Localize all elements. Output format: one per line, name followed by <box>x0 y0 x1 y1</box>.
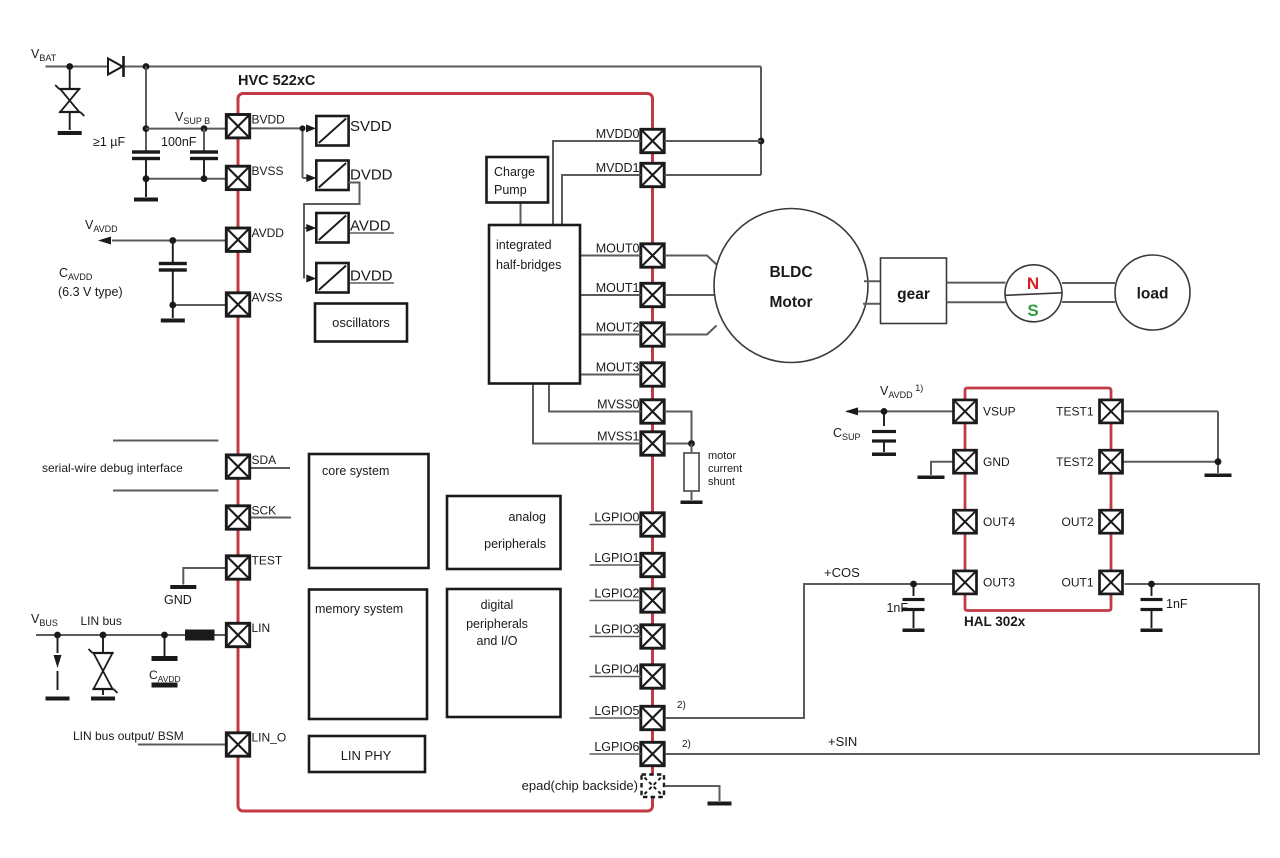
svg-text:VSUP: VSUP <box>983 405 1016 419</box>
pin HAL OUT3 <box>954 571 977 594</box>
wire cap to ground <box>172 305 174 318</box>
node rail/cap junction <box>143 63 150 70</box>
wire debug bracket bottom <box>113 490 218 492</box>
svg-text:SDA: SDA <box>252 453 277 467</box>
label Charge Pump <box>494 165 535 197</box>
node MVSS junction <box>688 440 695 447</box>
wire +COS <box>666 584 954 718</box>
label C_AVDD at LIN cap <box>149 668 181 684</box>
ground below V_BAT TVS <box>58 131 82 135</box>
label LGPIO3 <box>590 623 642 637</box>
capacitor 100nF <box>190 129 218 179</box>
pin LGPIO5 <box>641 706 664 729</box>
label SCK <box>252 504 277 518</box>
ground below 1nF COS <box>903 629 925 633</box>
svg-text:LGPIO6: LGPIO6 <box>594 740 639 754</box>
label C_AVDD <box>59 266 93 282</box>
capacitor C_AVDD <box>159 241 187 306</box>
pin BVSS <box>226 166 249 189</box>
label LIN_O <box>252 731 287 745</box>
core system box <box>309 454 429 568</box>
label DVDD1 <box>350 167 393 184</box>
label HAL VSUP <box>983 405 1016 419</box>
arrow into AVDD reg <box>306 224 316 232</box>
label MOUT2 <box>594 321 642 335</box>
wire MVSS1 to half-bridges <box>533 384 641 444</box>
svg-text:≥1 µF: ≥1 µF <box>93 135 125 149</box>
load circle <box>1115 255 1190 330</box>
svg-text:MOUT3: MOUT3 <box>596 361 640 375</box>
svg-text:shunt: shunt <box>708 476 735 488</box>
arrow into DVDD2 <box>306 275 316 283</box>
TVS zener at V_BAT <box>55 67 84 131</box>
wire BVDD to regulators <box>250 127 306 129</box>
gear box <box>881 258 947 324</box>
pin BVDD <box>226 115 249 138</box>
svg-text:DVDD: DVDD <box>350 268 393 285</box>
svg-text:LIN_O: LIN_O <box>252 731 287 745</box>
label HVC 522xC <box>238 73 316 89</box>
label S <box>1027 301 1038 320</box>
wire MOUT3 from half-bridges <box>580 374 641 376</box>
svg-text:gear: gear <box>897 286 930 303</box>
label V_AVDD <box>85 218 118 234</box>
TVS zener at LIN <box>89 635 118 695</box>
label HAL OUT1 <box>1061 576 1093 590</box>
pin LIN <box>226 623 249 646</box>
svg-text:AVDD: AVDD <box>252 226 285 240</box>
regulator SVDD <box>316 116 348 146</box>
BLDC motor circle <box>714 209 868 363</box>
svg-text:MVSS1: MVSS1 <box>597 430 639 444</box>
digital peripherals box <box>447 589 561 717</box>
ground below 1nF SIN <box>1141 629 1163 633</box>
node 1nF SIN junction <box>1148 581 1155 588</box>
svg-text:OUT4: OUT4 <box>983 515 1015 529</box>
wire MVDD0 right <box>665 140 762 142</box>
pin MVSS1 <box>641 432 664 455</box>
svg-text:analog: analog <box>508 510 546 524</box>
label AVDD reg <box>350 218 394 235</box>
capacitor 1nF (SIN) <box>1141 584 1163 628</box>
analog peripherals box <box>447 496 561 569</box>
HAL 302x chip outline (red) <box>965 388 1111 611</box>
wire MOUT1 to motor <box>665 294 715 296</box>
label SVDD <box>350 118 392 135</box>
ferrite bead <box>185 630 215 641</box>
label LIN bus <box>81 614 122 628</box>
wire epad to ground <box>665 786 720 801</box>
label MVDD1 <box>594 161 642 175</box>
node AVDD/cap junction <box>169 237 176 244</box>
svg-text:SVDD: SVDD <box>350 118 392 135</box>
svg-text:AVSS: AVSS <box>252 291 283 305</box>
pin MOUT0 <box>641 244 664 267</box>
svg-text:2): 2) <box>682 739 691 750</box>
label MOUT3 <box>594 361 642 375</box>
node 100nF bottom junction <box>201 175 208 182</box>
wire MOUT0 from half-bridges <box>580 255 641 257</box>
svg-text:motor: motor <box>708 450 736 462</box>
svg-text:HAL 302x: HAL 302x <box>964 614 1026 629</box>
wire MOUT2 to motor <box>665 326 717 335</box>
wire debug bracket top <box>113 440 218 442</box>
label V_SUP_B <box>175 110 210 126</box>
svg-text:Pump: Pump <box>494 183 527 197</box>
svg-text:BVDD: BVDD <box>252 112 286 126</box>
pin HAL TEST1 <box>1100 400 1123 423</box>
svg-text:MOUT1: MOUT1 <box>596 281 640 295</box>
svg-text:+COS: +COS <box>824 565 860 580</box>
node 100nF top junction <box>201 125 208 132</box>
ground at epad <box>708 802 732 806</box>
pin AVDD <box>226 228 249 251</box>
svg-text:core system: core system <box>322 464 389 478</box>
wire MOUT1 from half-bridges <box>580 294 641 296</box>
wire into AVDD reg <box>304 227 308 229</box>
label motor current shunt <box>708 450 742 488</box>
wire magnet-load shaft <box>1062 283 1115 302</box>
regulator AVDD <box>316 213 348 243</box>
diode D1 <box>108 56 124 77</box>
label MVDD0 <box>594 127 642 141</box>
node cap bottom junction <box>143 175 150 182</box>
pin LGPIO6 <box>641 742 664 765</box>
label 1nF (COS) <box>886 601 908 615</box>
node 1nF COS junction <box>910 581 917 588</box>
wire MOUT0 to motor <box>665 256 717 265</box>
label memory system <box>315 602 403 616</box>
wire gear-magnet shaft <box>947 283 1006 303</box>
label digital peripherals and I/O <box>466 598 528 648</box>
svg-text:LGPIO2: LGPIO2 <box>594 587 639 601</box>
label LGPIO6 <box>590 740 642 754</box>
label MOUT1 <box>594 281 642 295</box>
wire AVSS left <box>173 304 227 306</box>
label AVDD <box>252 226 285 240</box>
svg-text:(6.3 V type): (6.3 V type) <box>58 285 123 299</box>
wire TEST to ground <box>183 568 226 585</box>
svg-text:TEST: TEST <box>252 554 283 568</box>
label HAL OUT4 <box>983 515 1015 529</box>
regulator DVDD1 <box>316 161 348 191</box>
wire charge pump to half-bridges <box>520 203 522 226</box>
pin MOUT2 <box>641 323 664 346</box>
current arrow at V_BUS <box>54 635 62 690</box>
svg-text:serial-wire debug interface: serial-wire debug interface <box>42 461 183 475</box>
label MVSS1 <box>594 430 642 444</box>
svg-text:SCK: SCK <box>252 504 277 518</box>
label LGPIO1 <box>590 551 642 565</box>
svg-text:LGPIO0: LGPIO0 <box>594 511 639 525</box>
label C_SUP <box>833 426 861 442</box>
svg-text:HVC 522xC: HVC 522xC <box>238 73 316 89</box>
label HAL TEST1 <box>1056 405 1094 419</box>
label core system <box>322 464 389 478</box>
label 6.3 V type <box>58 285 123 299</box>
wire LIN_O stub underline <box>138 744 227 746</box>
ground below TEST wires <box>1205 474 1232 478</box>
pin LGPIO1 <box>641 553 664 576</box>
label DVDD2 reg <box>350 268 394 285</box>
wire to ground <box>145 179 147 197</box>
label V_BAT <box>31 47 57 63</box>
ground at HAL GND <box>918 476 945 480</box>
wire TEST2 right <box>1123 461 1218 463</box>
wire regulator feed vertical <box>302 128 304 178</box>
wire AVDD left <box>112 240 227 242</box>
svg-text:Motor: Motor <box>769 294 812 311</box>
svg-text:2): 2) <box>677 700 686 711</box>
label LGPIO5 <box>590 704 642 718</box>
svg-text:peripherals: peripherals <box>466 617 528 631</box>
arrow V_AVDD (HAL) <box>845 407 858 415</box>
magnet N/S circle <box>1005 265 1062 322</box>
label LIN bus output/ BSM <box>73 729 184 743</box>
pin LGPIO0 <box>641 513 664 536</box>
svg-text:epad(chip backside): epad(chip backside) <box>522 778 638 793</box>
label LGPIO4 <box>590 663 642 677</box>
pin SCK <box>226 506 249 529</box>
wire into DVDD1 <box>303 177 308 179</box>
label integrated half-bridges <box>496 238 561 272</box>
svg-text:LGPIO4: LGPIO4 <box>594 663 639 677</box>
svg-text:oscillators: oscillators <box>332 315 390 330</box>
pin epad <box>642 775 665 798</box>
capacitor at LIN <box>152 635 178 688</box>
label gear <box>897 286 930 303</box>
wire TEST1 right <box>1123 410 1218 412</box>
wire MVDD1 right <box>665 174 762 176</box>
label &#8805;1 &#181;F <box>93 135 125 149</box>
label +SIN <box>828 734 857 749</box>
pin MOUT3 <box>641 363 664 386</box>
ground below LIN TVS <box>91 697 115 701</box>
resistor motor current shunt <box>684 444 699 501</box>
svg-text:LIN: LIN <box>252 621 271 635</box>
wire SCK stub <box>251 517 292 519</box>
pin LGPIO3 <box>641 625 664 648</box>
svg-text:GND: GND <box>164 593 192 607</box>
label BLDC Motor <box>769 264 812 311</box>
HVC 522xC chip outline (red) <box>238 94 653 812</box>
arrow into DVDD1 <box>306 174 316 182</box>
wire +SIN <box>666 584 1259 754</box>
wire LIN bus rail <box>36 634 227 636</box>
node LIN TVS junction <box>100 632 107 639</box>
pin LIN_O <box>226 733 249 756</box>
wire MVDD1 to half-bridges <box>562 175 641 225</box>
svg-text:LIN bus output/ BSM: LIN bus output/ BSM <box>73 729 184 743</box>
label epad <box>522 778 638 793</box>
capacitor C_SUP <box>872 411 896 452</box>
label 1nF (SIN) <box>1166 597 1188 611</box>
node regulator split <box>300 125 306 131</box>
pin HAL OUT1 <box>1100 571 1123 594</box>
svg-text:1nF: 1nF <box>1166 597 1188 611</box>
label MOUT0 <box>594 242 642 256</box>
wire motor-gear shaft <box>863 281 881 304</box>
svg-text:+SIN: +SIN <box>828 734 857 749</box>
svg-text:Charge: Charge <box>494 165 535 179</box>
wire MVSS0 to half-bridges <box>549 384 641 412</box>
ground below C_AVDD <box>161 319 185 323</box>
label HAL OUT2 <box>1061 515 1093 529</box>
pin HAL TEST2 <box>1100 450 1123 473</box>
label 2) LGPIO6 <box>682 739 691 750</box>
pin MVSS0 <box>641 400 664 423</box>
pin HAL OUT4 <box>954 510 977 533</box>
svg-text:MVSS0: MVSS0 <box>597 398 639 412</box>
svg-text:and I/O: and I/O <box>477 634 518 648</box>
pin HAL VSUP <box>954 400 977 423</box>
regulator DVDD2 <box>316 263 348 293</box>
svg-text:TEST1: TEST1 <box>1056 405 1094 419</box>
svg-text:GND: GND <box>983 455 1010 469</box>
svg-text:memory system: memory system <box>315 602 403 616</box>
wire MVSS0 right <box>665 412 692 444</box>
ground at TEST <box>170 585 196 589</box>
pin MVDD0 <box>641 129 664 152</box>
label +COS <box>824 565 860 580</box>
svg-text:LGPIO1: LGPIO1 <box>594 551 639 565</box>
integrated half-bridges box <box>489 225 580 384</box>
capacitor &#8805;1 &#181;F <box>132 150 160 178</box>
label TEST <box>252 554 283 568</box>
capacitor 1nF (COS) <box>903 584 925 628</box>
label 2) LGPIO5 <box>677 700 686 711</box>
pin MOUT1 <box>641 283 664 306</box>
wire MOUT2 from half-bridges <box>580 334 641 336</box>
svg-text:MOUT2: MOUT2 <box>596 321 640 335</box>
node MVDD0 rail junction <box>758 138 765 145</box>
LIN PHY box <box>309 736 425 772</box>
svg-text:half-bridges: half-bridges <box>496 258 561 272</box>
pin SDA <box>226 455 249 478</box>
label SDA <box>252 453 277 467</box>
label oscillators <box>332 315 390 330</box>
wire SDA stub <box>251 467 291 469</box>
svg-text:LGPIO3: LGPIO3 <box>594 623 639 637</box>
pin AVSS <box>226 293 249 316</box>
node rail/TVS junction <box>66 63 73 70</box>
label AVSS <box>252 291 283 305</box>
node LIN cap junction <box>161 632 168 639</box>
wire BVSS rail <box>146 178 227 180</box>
svg-text:OUT2: OUT2 <box>1061 515 1093 529</box>
wire MVDD0 to half-bridges <box>553 141 641 225</box>
svg-text:TEST2: TEST2 <box>1056 455 1094 469</box>
memory system box <box>309 590 427 720</box>
label HAL TEST2 <box>1056 455 1094 469</box>
label BVDD <box>252 112 286 126</box>
svg-text:MVDD1: MVDD1 <box>596 161 640 175</box>
svg-text:load: load <box>1137 286 1169 303</box>
svg-text:LIN bus: LIN bus <box>81 614 122 628</box>
label serial-wire debug interface <box>42 461 183 475</box>
node TEST2 junction <box>1215 458 1222 465</box>
svg-text:AVDD: AVDD <box>350 218 391 235</box>
label MVSS0 <box>594 398 642 412</box>
svg-text:LGPIO5: LGPIO5 <box>594 704 639 718</box>
arrow V_AVDD <box>98 237 111 245</box>
label HAL 302x <box>964 614 1026 629</box>
node V_SUP_B junction <box>143 125 150 132</box>
label LGPIO2 <box>590 587 642 601</box>
label GND (TEST) <box>164 593 192 607</box>
wire GND pin to ground <box>931 462 953 475</box>
Charge Pump box <box>487 157 549 203</box>
label BVSS <box>252 164 284 178</box>
svg-text:1nF: 1nF <box>886 601 908 615</box>
node V_BUS junction <box>54 632 61 639</box>
svg-text:digital: digital <box>481 598 514 612</box>
pin HAL GND <box>954 450 977 473</box>
svg-text:MVDD0: MVDD0 <box>596 127 640 141</box>
label V_BUS <box>31 612 58 628</box>
svg-text:BVSS: BVSS <box>252 164 284 178</box>
wire rail to V_SUP_B node <box>145 67 147 153</box>
pin MVDD1 <box>641 163 664 186</box>
wire TEST drop <box>1217 411 1219 473</box>
ground below V_BUS arrow <box>46 697 70 701</box>
svg-text:OUT3: OUT3 <box>983 576 1015 590</box>
pin LGPIO4 <box>641 665 664 688</box>
label HAL GND <box>983 455 1010 469</box>
svg-text:BLDC: BLDC <box>769 264 812 281</box>
svg-text:integrated: integrated <box>496 238 552 252</box>
svg-text:S: S <box>1027 301 1038 320</box>
svg-text:current: current <box>708 463 742 475</box>
ground below 1uF cap <box>134 198 158 202</box>
svg-text:100nF: 100nF <box>161 135 197 149</box>
label LIN <box>252 621 271 635</box>
svg-text:MOUT0: MOUT0 <box>596 242 640 256</box>
wire DVDD1 out to AVDD/DVDD2 feed <box>304 183 360 279</box>
label HAL OUT3 <box>983 576 1015 590</box>
label LGPIO0 <box>590 511 642 525</box>
node AVSS/cap junction <box>169 302 176 309</box>
pin HAL OUT2 <box>1100 510 1123 533</box>
oscillators box <box>315 304 407 342</box>
label 100nF <box>161 135 197 149</box>
wire MVSS1 right <box>665 443 692 445</box>
svg-text:OUT1: OUT1 <box>1061 576 1093 590</box>
arrow into SVDD <box>306 124 316 132</box>
label N <box>1027 274 1039 293</box>
label load <box>1137 286 1169 303</box>
label V_AVDD 1) <box>880 383 923 400</box>
svg-text:peripherals: peripherals <box>484 537 546 551</box>
ground below C_SUP <box>872 453 896 457</box>
wire VSUP left <box>847 410 953 412</box>
node C_SUP junction <box>881 408 888 415</box>
svg-text:DVDD: DVDD <box>350 167 393 184</box>
wire V_SUP_B to BVDD <box>146 128 227 130</box>
ground below shunt <box>681 501 703 505</box>
label analog peripherals <box>484 510 546 551</box>
label LIN PHY <box>341 748 392 763</box>
svg-text:N: N <box>1027 274 1039 293</box>
pin LGPIO2 <box>641 589 664 612</box>
pin TEST <box>226 556 249 579</box>
wire V_BAT rail <box>46 66 762 68</box>
svg-text:LIN PHY: LIN PHY <box>341 748 392 763</box>
wire rail to MVDD1 drop <box>760 67 762 176</box>
